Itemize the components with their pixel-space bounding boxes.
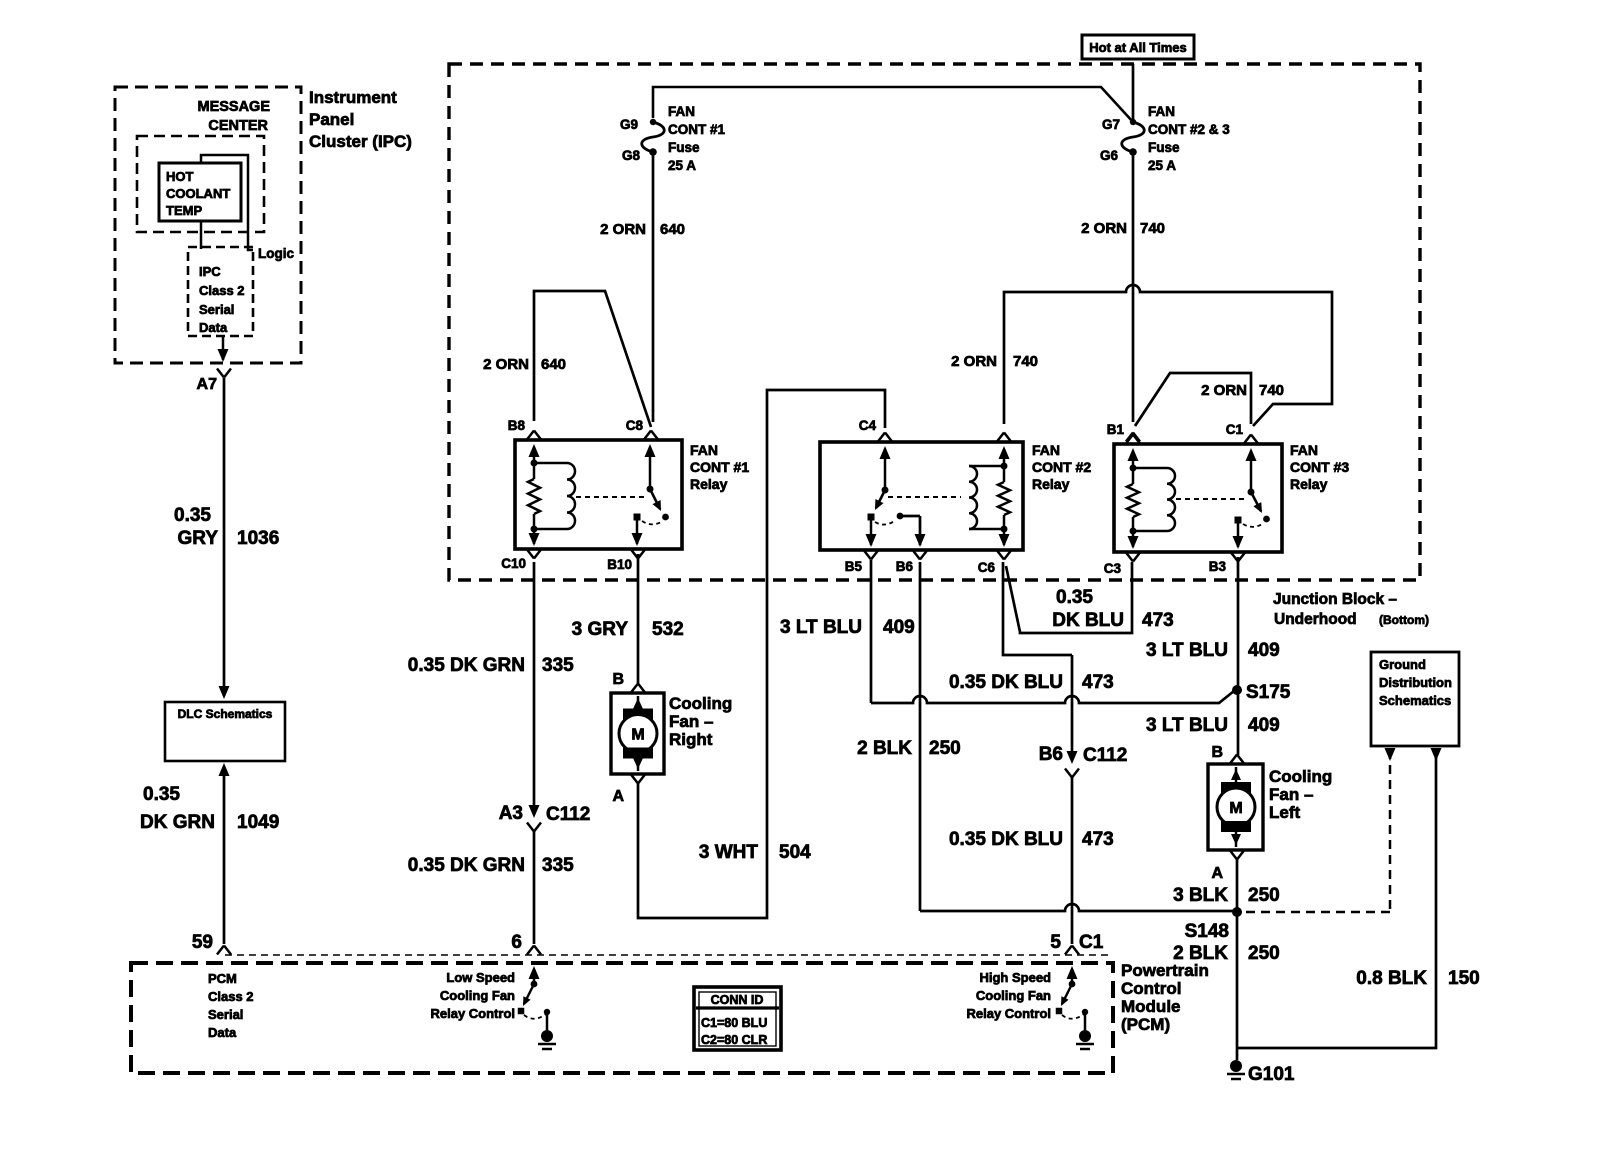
svg-text:B6: B6	[1039, 744, 1063, 765]
svg-text:0.35 DK BLU: 0.35 DK BLU	[949, 829, 1063, 850]
svg-text:2 BLK: 2 BLK	[1173, 943, 1228, 964]
svg-text:C2=80 CLR: C2=80 CLR	[701, 1033, 767, 1047]
svg-text:Serial: Serial	[199, 302, 234, 317]
svg-text:Panel: Panel	[309, 110, 354, 129]
svg-text:B10: B10	[607, 557, 632, 572]
svg-text:FAN: FAN	[1032, 442, 1060, 458]
svg-text:Schematics: Schematics	[1379, 693, 1451, 708]
svg-text:Instrument: Instrument	[309, 88, 397, 107]
svg-text:Right: Right	[669, 730, 713, 749]
svg-text:0.35: 0.35	[1056, 587, 1093, 608]
svg-text:Relay Control: Relay Control	[966, 1006, 1051, 1021]
svg-text:59: 59	[192, 932, 213, 953]
svg-text:Control: Control	[1121, 979, 1181, 998]
svg-text:M: M	[631, 727, 644, 744]
svg-text:0.35: 0.35	[143, 784, 180, 805]
svg-text:C10: C10	[501, 556, 526, 571]
svg-text:409: 409	[883, 617, 915, 638]
svg-text:G9: G9	[620, 117, 638, 132]
svg-text:M: M	[1229, 800, 1242, 817]
svg-text:Fan –: Fan –	[1269, 785, 1313, 804]
svg-text:Data: Data	[208, 1025, 237, 1040]
svg-text:C112: C112	[546, 804, 590, 825]
svg-text:Cooling Fan: Cooling Fan	[976, 988, 1051, 1003]
svg-text:High Speed: High Speed	[979, 970, 1051, 985]
svg-text:1036: 1036	[237, 528, 279, 549]
svg-text:GRY: GRY	[178, 528, 219, 549]
svg-text:Hot at All Times: Hot at All Times	[1089, 40, 1187, 55]
svg-text:3 LT BLU: 3 LT BLU	[1146, 715, 1228, 736]
svg-text:409: 409	[1248, 640, 1280, 661]
svg-text:MESSAGE: MESSAGE	[197, 99, 270, 115]
svg-text:Low Speed: Low Speed	[446, 970, 515, 985]
svg-text:DK GRN: DK GRN	[140, 812, 215, 833]
svg-text:B8: B8	[508, 418, 526, 433]
svg-text:473: 473	[1082, 829, 1114, 850]
svg-text:A7: A7	[197, 376, 218, 393]
svg-text:Module: Module	[1121, 997, 1181, 1016]
svg-text:409: 409	[1248, 715, 1280, 736]
svg-text:0.35 DK GRN: 0.35 DK GRN	[408, 655, 525, 676]
svg-text:3 LT BLU: 3 LT BLU	[780, 617, 862, 638]
svg-text:FAN: FAN	[1290, 442, 1318, 458]
svg-text:COOLANT: COOLANT	[166, 186, 230, 201]
svg-text:5: 5	[1050, 932, 1061, 953]
svg-text:A: A	[1211, 865, 1223, 882]
svg-text:Ground: Ground	[1379, 657, 1426, 672]
svg-text:CONT #1: CONT #1	[668, 122, 726, 137]
svg-text:Fan –: Fan –	[669, 712, 713, 731]
svg-text:G6: G6	[1100, 148, 1119, 163]
svg-text:C3: C3	[1104, 561, 1122, 576]
svg-text:473: 473	[1082, 672, 1114, 693]
svg-text:740: 740	[1140, 220, 1165, 237]
svg-text:250: 250	[929, 738, 961, 759]
svg-text:Distribution: Distribution	[1379, 675, 1452, 690]
svg-text:3 LT BLU: 3 LT BLU	[1146, 640, 1228, 661]
svg-text:2 BLK: 2 BLK	[857, 738, 912, 759]
svg-text:DK BLU: DK BLU	[1052, 610, 1124, 631]
svg-text:2 ORN: 2 ORN	[1081, 220, 1127, 237]
svg-text:Class 2: Class 2	[208, 989, 254, 1004]
svg-text:B6: B6	[896, 559, 914, 574]
svg-text:3 WHT: 3 WHT	[699, 842, 759, 863]
svg-text:C6: C6	[978, 560, 996, 575]
svg-text:G8: G8	[622, 148, 641, 163]
svg-text:CONT #2: CONT #2	[1032, 459, 1091, 475]
svg-text:Cluster (IPC): Cluster (IPC)	[309, 132, 412, 151]
svg-text:2 ORN: 2 ORN	[1201, 382, 1247, 399]
svg-text:Relay: Relay	[1032, 476, 1070, 492]
svg-text:Relay: Relay	[690, 476, 728, 492]
svg-text:335: 335	[542, 655, 574, 676]
svg-text:TEMP: TEMP	[166, 203, 202, 218]
svg-text:S148: S148	[1185, 921, 1229, 942]
svg-text:640: 640	[541, 356, 566, 373]
svg-text:HOT: HOT	[166, 169, 194, 184]
svg-text:6: 6	[511, 932, 522, 953]
svg-text:25 A: 25 A	[668, 158, 696, 173]
svg-text:473: 473	[1142, 610, 1174, 631]
svg-text:Underhood: Underhood	[1274, 611, 1357, 628]
svg-text:25 A: 25 A	[1148, 158, 1176, 173]
svg-text:Cooling Fan: Cooling Fan	[440, 988, 515, 1003]
svg-text:Relay: Relay	[1290, 476, 1328, 492]
svg-text:DLC Schematics: DLC Schematics	[178, 707, 273, 721]
svg-text:PCM: PCM	[208, 971, 237, 986]
svg-text:FAN: FAN	[1148, 104, 1175, 119]
svg-text:CONT #3: CONT #3	[1290, 459, 1349, 475]
svg-text:1049: 1049	[237, 812, 279, 833]
svg-text:B1: B1	[1107, 422, 1125, 437]
svg-text:2 ORN: 2 ORN	[483, 356, 529, 373]
svg-text:C1=80 BLU: C1=80 BLU	[701, 1016, 767, 1030]
svg-text:B: B	[612, 671, 624, 688]
svg-text:G101: G101	[1248, 1064, 1295, 1085]
svg-text:(Bottom): (Bottom)	[1379, 613, 1429, 627]
svg-text:Fuse: Fuse	[1148, 140, 1180, 155]
svg-text:IPC: IPC	[199, 264, 221, 279]
svg-text:150: 150	[1448, 968, 1480, 989]
svg-text:3 BLK: 3 BLK	[1173, 885, 1228, 906]
svg-text:Relay Control: Relay Control	[430, 1006, 515, 1021]
svg-text:335: 335	[542, 855, 574, 876]
svg-text:640: 640	[660, 221, 685, 238]
svg-text:0.35: 0.35	[174, 505, 211, 526]
svg-text:Left: Left	[1269, 803, 1301, 822]
svg-text:Class 2: Class 2	[199, 283, 245, 298]
svg-text:Fuse: Fuse	[668, 140, 700, 155]
svg-text:B5: B5	[845, 559, 863, 574]
svg-text:C1: C1	[1079, 932, 1104, 953]
svg-text:Cooling: Cooling	[1269, 767, 1332, 786]
svg-text:CENTER: CENTER	[208, 118, 268, 134]
svg-text:CONN ID: CONN ID	[711, 993, 764, 1007]
svg-text:2 ORN: 2 ORN	[951, 353, 997, 370]
svg-text:C8: C8	[626, 418, 644, 433]
svg-text:S175: S175	[1246, 682, 1291, 703]
svg-text:B3: B3	[1209, 559, 1227, 574]
svg-text:0.35 DK BLU: 0.35 DK BLU	[949, 672, 1063, 693]
svg-text:C112: C112	[1083, 745, 1127, 766]
svg-text:250: 250	[1248, 885, 1280, 906]
svg-text:Logic: Logic	[258, 246, 294, 261]
svg-text:532: 532	[652, 619, 684, 640]
svg-text:Cooling: Cooling	[669, 694, 732, 713]
svg-text:CONT #2 & 3: CONT #2 & 3	[1148, 122, 1230, 137]
svg-text:A: A	[612, 788, 624, 805]
svg-text:Junction Block –: Junction Block –	[1273, 591, 1397, 608]
svg-text:2 ORN: 2 ORN	[600, 221, 646, 238]
svg-text:0.8 BLK: 0.8 BLK	[1356, 968, 1427, 989]
svg-text:C1: C1	[1226, 422, 1244, 437]
svg-text:504: 504	[779, 842, 811, 863]
svg-text:G7: G7	[1102, 117, 1120, 132]
svg-text:FAN: FAN	[668, 104, 695, 119]
svg-text:Serial: Serial	[208, 1007, 243, 1022]
svg-text:A3: A3	[499, 803, 523, 824]
svg-text:Data: Data	[199, 320, 228, 335]
svg-text:(PCM): (PCM)	[1121, 1015, 1170, 1034]
svg-text:740: 740	[1013, 353, 1038, 370]
svg-text:740: 740	[1259, 382, 1284, 399]
svg-text:C4: C4	[859, 418, 877, 433]
svg-text:CONT #1: CONT #1	[690, 459, 749, 475]
svg-text:0.35 DK GRN: 0.35 DK GRN	[408, 855, 525, 876]
svg-text:B: B	[1211, 744, 1223, 761]
svg-text:FAN: FAN	[690, 442, 718, 458]
svg-text:250: 250	[1248, 943, 1280, 964]
svg-text:3 GRY: 3 GRY	[572, 619, 629, 640]
